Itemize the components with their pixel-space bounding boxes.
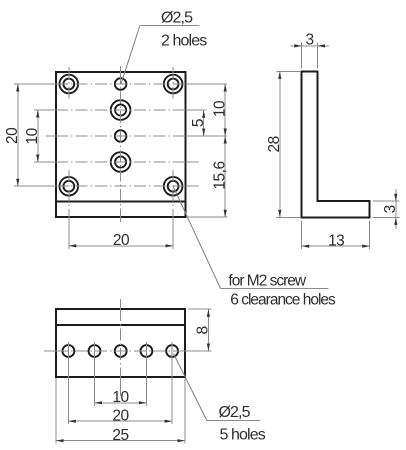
extension hole B4 (145, 342, 147, 406)
leader to top small holes (121, 26, 140, 85)
centerline middle vertical bottom view (120, 299, 122, 309)
dimension 13 bottom of side view (302, 220, 370, 249)
svg-text:10: 10 (112, 389, 129, 406)
extension hole B5 (171, 342, 173, 424)
corner hole bottom-left (60, 177, 79, 196)
hole B3 (115, 345, 127, 357)
corner hole top-right (164, 75, 183, 94)
dimension 28 left of side view (266, 71, 300, 217)
svg-text:13: 13 (328, 232, 344, 249)
svg-text:10: 10 (211, 100, 228, 117)
L profile outline (302, 71, 370, 217)
svg-text:15,6: 15,6 (211, 161, 228, 189)
svg-text:10: 10 (24, 127, 41, 144)
centerline left column bottom (68, 170, 70, 217)
leader to bottom-right clearance hole (173, 186, 220, 288)
callout for M2 screw 6 clearance holes (228, 273, 336, 309)
svg-text:8: 8 (195, 326, 212, 334)
bottom view outline (56, 309, 185, 377)
counterbored hole row2 (111, 100, 131, 120)
dimension 5 right (190, 110, 207, 136)
extension hole B2 (94, 342, 96, 406)
front plate outline (56, 72, 185, 217)
hole B4 (140, 345, 152, 357)
dimension 10 left (24, 110, 41, 162)
small hole row3 (115, 130, 127, 142)
centerline row2 horizontal (34, 109, 56, 111)
dimension 25 bottom view (56, 427, 185, 444)
extension left edge (55, 378, 57, 444)
svg-text:20: 20 (113, 232, 130, 249)
dimension 3 right of side view (373, 189, 400, 229)
flange edge line (56, 201, 185, 203)
svg-text:25: 25 (112, 427, 128, 444)
bottom view inner edge (56, 324, 185, 326)
callout diameter 2,5 5 holes (219, 404, 266, 443)
centerline left column top (68, 67, 70, 101)
svg-text:3: 3 (306, 32, 314, 49)
callout diameter 2,5 2 holes (161, 10, 207, 50)
centerline right column bottom (172, 170, 174, 217)
hole B2 (89, 345, 101, 357)
small hole row1 (115, 78, 127, 90)
corner hole bottom-right (164, 177, 183, 196)
centerline bottom row horizontal (14, 185, 56, 187)
svg-text:for M2 screw: for M2 screw (228, 273, 307, 290)
dimension 10 bottom view (95, 389, 147, 406)
dimension 3 top (291, 32, 329, 69)
hole B1 (62, 345, 74, 357)
svg-text:2 holes: 2 holes (161, 33, 207, 50)
centerline holes row horizontal (44, 350, 56, 352)
svg-text:Ø2,5: Ø2,5 (161, 10, 193, 27)
centerline row3 horizontal (46, 135, 56, 137)
svg-text:28: 28 (266, 136, 283, 152)
svg-text:5: 5 (190, 119, 207, 127)
extension hole B1 (67, 342, 69, 424)
svg-text:6 clearance holes: 6 clearance holes (230, 292, 336, 309)
svg-text:20: 20 (112, 408, 129, 425)
centerline row4 horizontal (34, 161, 56, 163)
extension right edge (184, 378, 186, 444)
dimension 20 left (4, 84, 21, 186)
dimension 8 right of bottom view (188, 309, 212, 351)
svg-text:3: 3 (382, 205, 399, 213)
centerline row1 horizontal (14, 83, 56, 85)
dimension 20 bottom of front view (69, 232, 173, 249)
centerline right column top (172, 67, 174, 101)
corner hole top-left (60, 75, 79, 94)
dimension 20 bottom view (68, 408, 172, 425)
svg-text:Ø2,5: Ø2,5 (219, 404, 251, 421)
counterbored hole row4 (111, 152, 131, 172)
leader to 5 holes (174, 354, 207, 421)
dimension 10 right (211, 84, 228, 136)
hole B5 (166, 345, 178, 357)
dimension 15,6 right (188, 136, 228, 217)
svg-text:5 holes: 5 holes (220, 426, 266, 443)
centerline middle column vertical (120, 66, 122, 72)
svg-text:20: 20 (4, 127, 21, 144)
